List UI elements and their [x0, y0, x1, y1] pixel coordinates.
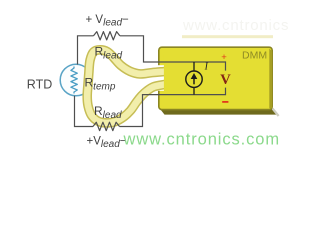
lead ribbon (pale fill) — [87, 50, 165, 123]
svg-text:+Vlead−: +Vlead− — [87, 136, 127, 151]
DMM box 3d bottom band — [160, 108, 277, 114]
minus terminal — [222, 101, 228, 103]
DMM box body — [159, 47, 272, 109]
svg-text:I: I — [204, 61, 209, 72]
svg-text:DMM: DMM — [242, 50, 267, 62]
RTD internal resistor zigzag — [71, 67, 77, 94]
svg-text:www.cntronics.com: www.cntronics.com — [123, 131, 281, 149]
current source arrow — [193, 78, 195, 85]
RTD sensor circle — [60, 64, 92, 96]
lead ribbon (outline) — [87, 50, 165, 123]
corner shadow — [273, 109, 279, 117]
resistor R_lead bottom zigzag — [93, 122, 120, 130]
svg-text:V: V — [220, 72, 231, 88]
svg-text:www.cntronics: www.cntronics — [182, 17, 289, 34]
white entry slot in DMM left border — [157, 65, 165, 91]
box fill cover over ribbon ends — [164, 55, 172, 97]
svg-text:+ Vlead−: + Vlead− — [86, 14, 130, 29]
wire: lead loops and DMM rails — [75, 36, 226, 127]
svg-text:+: + — [221, 52, 227, 63]
resistor R_lead top zigzag — [94, 32, 120, 40]
current source U1 circle — [186, 71, 202, 87]
current source connection wires — [193, 62, 195, 95]
faint watermark underline streak — [182, 35, 273, 38]
DMM box right edge shade — [269, 49, 272, 109]
svg-text:RTD: RTD — [27, 78, 52, 92]
